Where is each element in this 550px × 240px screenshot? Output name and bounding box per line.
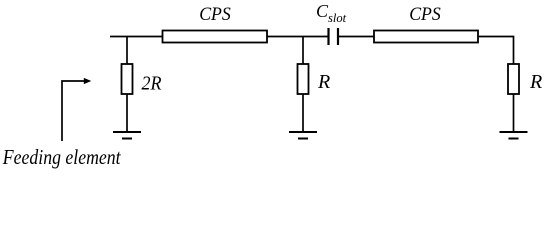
wire from CPS2 to right corner xyxy=(478,37,514,65)
CPS transmission line 1 xyxy=(163,31,268,43)
wire between CPS1 and capacitor xyxy=(267,36,328,38)
resistor 2R xyxy=(122,64,133,94)
svg-text:CPS: CPS xyxy=(199,4,231,25)
ground left xyxy=(113,131,141,133)
wire resistor 2R to ground xyxy=(126,95,128,133)
ground right xyxy=(500,131,528,133)
node B junction middle xyxy=(302,37,304,65)
ground middle xyxy=(289,131,317,133)
svg-text:Feeding element: Feeding element xyxy=(2,145,122,169)
svg-text:Cslot: Cslot xyxy=(316,1,347,25)
resistor R middle xyxy=(298,64,309,94)
svg-text:R: R xyxy=(317,71,330,93)
svg-text:CPS: CPS xyxy=(409,4,441,25)
CPS transmission line 2 xyxy=(374,31,478,43)
wire between capacitor and CPS2 xyxy=(338,36,374,38)
wire top-left horizontal xyxy=(110,36,163,38)
resistor R right xyxy=(508,64,519,94)
svg-text:R: R xyxy=(529,71,542,93)
wire resistor R right to ground xyxy=(513,95,515,133)
capacitor C_slot xyxy=(327,28,329,45)
svg-text:2R: 2R xyxy=(142,72,162,94)
feeding element arrow xyxy=(62,81,84,141)
wire resistor R middle to ground xyxy=(302,95,304,133)
node A junction left xyxy=(126,37,128,65)
